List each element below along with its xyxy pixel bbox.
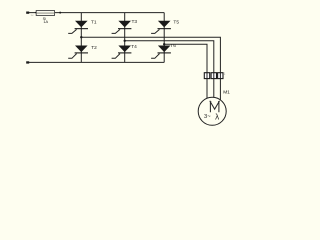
svg-text:T1: T1 [91,19,97,25]
svg-text:T5: T5 [173,19,179,25]
svg-text:T4: T4 [131,44,137,50]
svg-text:λ: λ [215,112,219,121]
svg-text:T2: T2 [91,45,97,51]
svg-text:1A: 1A [43,19,48,24]
svg-text:T6: T6 [170,43,176,49]
svg-text:T3: T3 [132,19,138,25]
svg-text:3~: 3~ [204,114,211,120]
svg-text:1: 1 [224,72,226,76]
svg-text:M1: M1 [223,89,230,95]
